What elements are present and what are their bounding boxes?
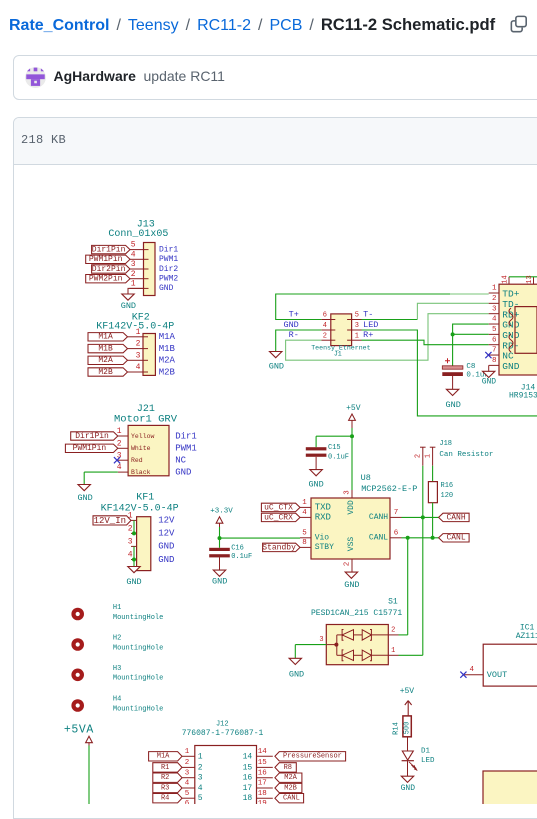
svg-text:+5V: +5V	[400, 687, 415, 696]
svg-text:GND: GND	[269, 362, 284, 372]
svg-text:CANH: CANH	[446, 513, 465, 522]
svg-text:4: 4	[492, 316, 497, 324]
svg-text:M2B: M2B	[284, 784, 297, 792]
svg-text:T-: T-	[363, 309, 373, 319]
svg-text:PWM2: PWM2	[159, 275, 178, 284]
svg-text:Conn_01x05: Conn_01x05	[108, 229, 168, 240]
svg-text:17: 17	[243, 784, 253, 793]
svg-text:RD+: RD+	[502, 309, 519, 320]
svg-text:+5V: +5V	[346, 404, 361, 413]
svg-text:5: 5	[131, 241, 136, 250]
svg-text:3: 3	[492, 305, 497, 313]
svg-text:PWM1: PWM1	[175, 444, 197, 454]
svg-text:MCP2562-E-P: MCP2562-E-P	[361, 484, 417, 494]
svg-text:1: 1	[131, 280, 136, 289]
svg-text:3: 3	[185, 769, 190, 777]
svg-text:19: 19	[258, 800, 267, 804]
svg-text:S1: S1	[388, 598, 398, 607]
svg-text:LED: LED	[363, 320, 378, 330]
svg-text:4: 4	[131, 250, 136, 259]
svg-text:18: 18	[243, 794, 253, 803]
svg-text:16: 16	[243, 774, 253, 783]
svg-text:M2A: M2A	[284, 774, 297, 782]
svg-text:M1A: M1A	[98, 333, 113, 342]
svg-text:PWM1Pin: PWM1Pin	[89, 255, 123, 264]
svg-text:H2: H2	[113, 635, 121, 643]
svg-text:uC_CRX: uC_CRX	[264, 513, 293, 522]
svg-text:C15: C15	[328, 444, 341, 452]
svg-text:PWM1Pin: PWM1Pin	[73, 444, 107, 453]
svg-text:14: 14	[501, 275, 509, 283]
svg-text:R2: R2	[161, 774, 169, 782]
svg-text:6: 6	[185, 800, 190, 804]
svg-text:1: 1	[198, 752, 203, 761]
svg-text:GND: GND	[446, 400, 461, 410]
svg-text:Vio: Vio	[315, 534, 330, 543]
svg-text:MountingHole: MountingHole	[113, 644, 163, 652]
svg-text:3: 3	[128, 538, 133, 547]
svg-text:1: 1	[136, 328, 141, 337]
svg-text:M1A: M1A	[157, 753, 170, 761]
svg-text:D1: D1	[421, 748, 431, 756]
svg-text:NC: NC	[502, 351, 514, 362]
svg-text:M2B: M2B	[98, 368, 113, 377]
svg-text:4: 4	[323, 322, 327, 330]
svg-text:776087-1-776087-1: 776087-1-776087-1	[182, 729, 264, 738]
svg-text:GND: GND	[175, 467, 191, 477]
svg-text:2: 2	[128, 525, 133, 534]
svg-text:KF1: KF1	[136, 493, 154, 504]
svg-text:3: 3	[344, 490, 352, 495]
svg-text:GND: GND	[121, 301, 136, 311]
svg-text:J1: J1	[334, 351, 342, 358]
svg-text:Dir1: Dir1	[159, 245, 178, 254]
svg-text:T+: T+	[289, 309, 299, 319]
svg-text:14: 14	[243, 752, 253, 761]
svg-text:3: 3	[355, 322, 359, 330]
svg-text:C16: C16	[231, 545, 244, 553]
svg-text:NC: NC	[175, 456, 186, 466]
svg-text:R16: R16	[441, 482, 454, 490]
svg-text:Yellow: Yellow	[131, 433, 155, 440]
svg-text:8: 8	[492, 357, 497, 365]
svg-text:C8: C8	[466, 363, 475, 371]
svg-text:0.1uF: 0.1uF	[328, 454, 349, 462]
svg-text:2: 2	[344, 562, 352, 567]
svg-text:0.1uF: 0.1uF	[231, 553, 252, 561]
svg-text:16: 16	[258, 769, 268, 777]
svg-text:Dir1: Dir1	[175, 431, 197, 441]
svg-text:6: 6	[323, 312, 327, 320]
svg-text:5: 5	[302, 529, 307, 537]
svg-text:HR9153: HR9153	[509, 391, 537, 400]
svg-text:STBY: STBY	[315, 543, 334, 552]
svg-text:5: 5	[492, 326, 497, 334]
svg-text:AZ1117CD-3.3: AZ1117CD-3.3	[516, 632, 537, 641]
svg-text:GND: GND	[158, 555, 174, 565]
svg-text:+3.3V: +3.3V	[210, 507, 233, 515]
svg-text:M2B: M2B	[159, 367, 176, 377]
svg-text:GND: GND	[308, 479, 323, 489]
svg-text:Black: Black	[131, 469, 151, 476]
svg-text:2: 2	[391, 626, 395, 634]
svg-text:1: 1	[492, 285, 497, 293]
svg-text:LED: LED	[421, 757, 435, 765]
svg-text:6: 6	[394, 529, 399, 537]
svg-text:3: 3	[319, 636, 323, 644]
svg-text:5: 5	[198, 794, 203, 803]
svg-text:5: 5	[185, 790, 190, 798]
svg-text:4: 4	[198, 784, 203, 793]
svg-text:R1: R1	[161, 764, 169, 772]
svg-text:MountingHole: MountingHole	[113, 675, 163, 683]
svg-text:M1B: M1B	[159, 344, 176, 354]
svg-text:KF142V-5.0-4P: KF142V-5.0-4P	[101, 504, 179, 515]
svg-text:1: 1	[302, 499, 307, 507]
svg-text:R-: R-	[289, 330, 299, 340]
svg-text:12V_In: 12V_In	[94, 516, 126, 526]
svg-text:2: 2	[492, 295, 497, 303]
svg-text:3: 3	[131, 260, 136, 269]
svg-text:3: 3	[198, 774, 203, 783]
svg-text:RXD: RXD	[315, 513, 331, 523]
svg-text:M2A: M2A	[98, 356, 113, 365]
svg-text:1: 1	[391, 647, 395, 655]
svg-text:14: 14	[258, 748, 268, 756]
svg-text:GND: GND	[159, 284, 174, 293]
svg-text:J12: J12	[216, 720, 229, 728]
svg-text:GND: GND	[212, 577, 227, 587]
svg-text:6: 6	[492, 336, 497, 344]
svg-text:MountingHole: MountingHole	[113, 614, 163, 622]
svg-text:+5VA: +5VA	[64, 723, 94, 736]
svg-text:GND: GND	[289, 670, 304, 680]
svg-text:GND: GND	[77, 493, 92, 503]
svg-text:GND: GND	[502, 361, 519, 372]
svg-text:15: 15	[243, 763, 253, 772]
svg-text:H3: H3	[113, 665, 121, 673]
svg-text:R+: R+	[363, 330, 373, 340]
svg-text:Dir1Pin: Dir1Pin	[92, 246, 126, 255]
svg-text:2: 2	[136, 340, 141, 349]
svg-text:3: 3	[136, 351, 141, 360]
svg-text:MountingHole: MountingHole	[113, 705, 163, 713]
svg-text:Can Resistor: Can Resistor	[439, 451, 493, 459]
svg-text:12V: 12V	[158, 529, 175, 539]
svg-text:uC_CTX: uC_CTX	[264, 503, 293, 512]
svg-text:4: 4	[302, 509, 307, 517]
svg-text:CANL: CANL	[369, 534, 388, 543]
svg-text:18: 18	[258, 790, 267, 798]
svg-text:1: 1	[117, 427, 122, 436]
svg-text:R4: R4	[161, 795, 169, 803]
svg-text:R3: R3	[161, 784, 169, 792]
svg-text:Red: Red	[131, 457, 143, 464]
svg-text:H1: H1	[113, 604, 121, 612]
svg-text:8: 8	[302, 539, 307, 547]
svg-text:GND: GND	[283, 320, 298, 330]
svg-text:M1A: M1A	[159, 332, 176, 342]
svg-text:2: 2	[415, 454, 423, 458]
svg-text:PWM1: PWM1	[159, 255, 178, 264]
svg-text:PESD1CAN_215 C15771: PESD1CAN_215 C15771	[311, 609, 402, 618]
svg-text:7: 7	[492, 347, 497, 355]
svg-text:Dir2: Dir2	[159, 265, 178, 274]
svg-text:15: 15	[258, 759, 268, 767]
svg-text:1: 1	[424, 454, 432, 458]
svg-text:Dir2Pin: Dir2Pin	[92, 265, 126, 274]
svg-text:4: 4	[185, 780, 190, 788]
svg-text:Dir1Pin: Dir1Pin	[75, 432, 109, 441]
svg-text:TXD: TXD	[315, 503, 331, 513]
svg-text:17: 17	[258, 780, 267, 788]
svg-text:R8: R8	[284, 764, 292, 772]
svg-text:GND: GND	[344, 580, 359, 590]
svg-text:GND: GND	[401, 784, 416, 793]
svg-text:1: 1	[185, 748, 190, 756]
svg-text:4: 4	[470, 666, 475, 674]
svg-text:VOUT: VOUT	[487, 670, 507, 680]
svg-text:2: 2	[131, 270, 136, 279]
svg-text:GND: GND	[126, 577, 141, 587]
svg-text:4: 4	[136, 363, 141, 372]
svg-text:GND: GND	[158, 542, 174, 552]
svg-text:1: 1	[355, 332, 359, 340]
svg-text:Motor1 GRV: Motor1 GRV	[114, 413, 178, 425]
svg-text:7: 7	[394, 509, 399, 517]
svg-text:CANL: CANL	[283, 795, 300, 803]
svg-text:White: White	[131, 445, 151, 452]
svg-text:12V: 12V	[158, 516, 175, 526]
svg-text:VDD: VDD	[347, 500, 356, 515]
svg-text:2: 2	[323, 332, 327, 340]
svg-text:GND: GND	[482, 378, 497, 387]
svg-text:500: 500	[403, 722, 411, 735]
svg-text:H4: H4	[113, 696, 121, 704]
svg-text:5: 5	[355, 312, 359, 320]
svg-text:PWM2Pin: PWM2Pin	[89, 275, 123, 284]
svg-text:2: 2	[117, 439, 122, 448]
svg-text:M2A: M2A	[159, 356, 176, 366]
svg-text:PressureSensor: PressureSensor	[283, 753, 342, 761]
svg-text:CANH: CANH	[369, 513, 388, 522]
svg-text:R14: R14	[393, 722, 401, 735]
svg-text:M1B: M1B	[98, 345, 113, 354]
svg-text:13: 13	[526, 275, 534, 283]
svg-text:2: 2	[185, 759, 190, 767]
svg-text:J18: J18	[439, 440, 452, 448]
svg-text:120: 120	[441, 492, 454, 500]
svg-text:2: 2	[198, 763, 203, 772]
svg-text:4: 4	[117, 463, 122, 472]
svg-text:Standby: Standby	[262, 543, 296, 552]
svg-text:VSS: VSS	[347, 537, 356, 552]
svg-text:CANL: CANL	[446, 534, 465, 543]
svg-text:U8: U8	[361, 473, 371, 483]
svg-text:4: 4	[128, 551, 133, 560]
